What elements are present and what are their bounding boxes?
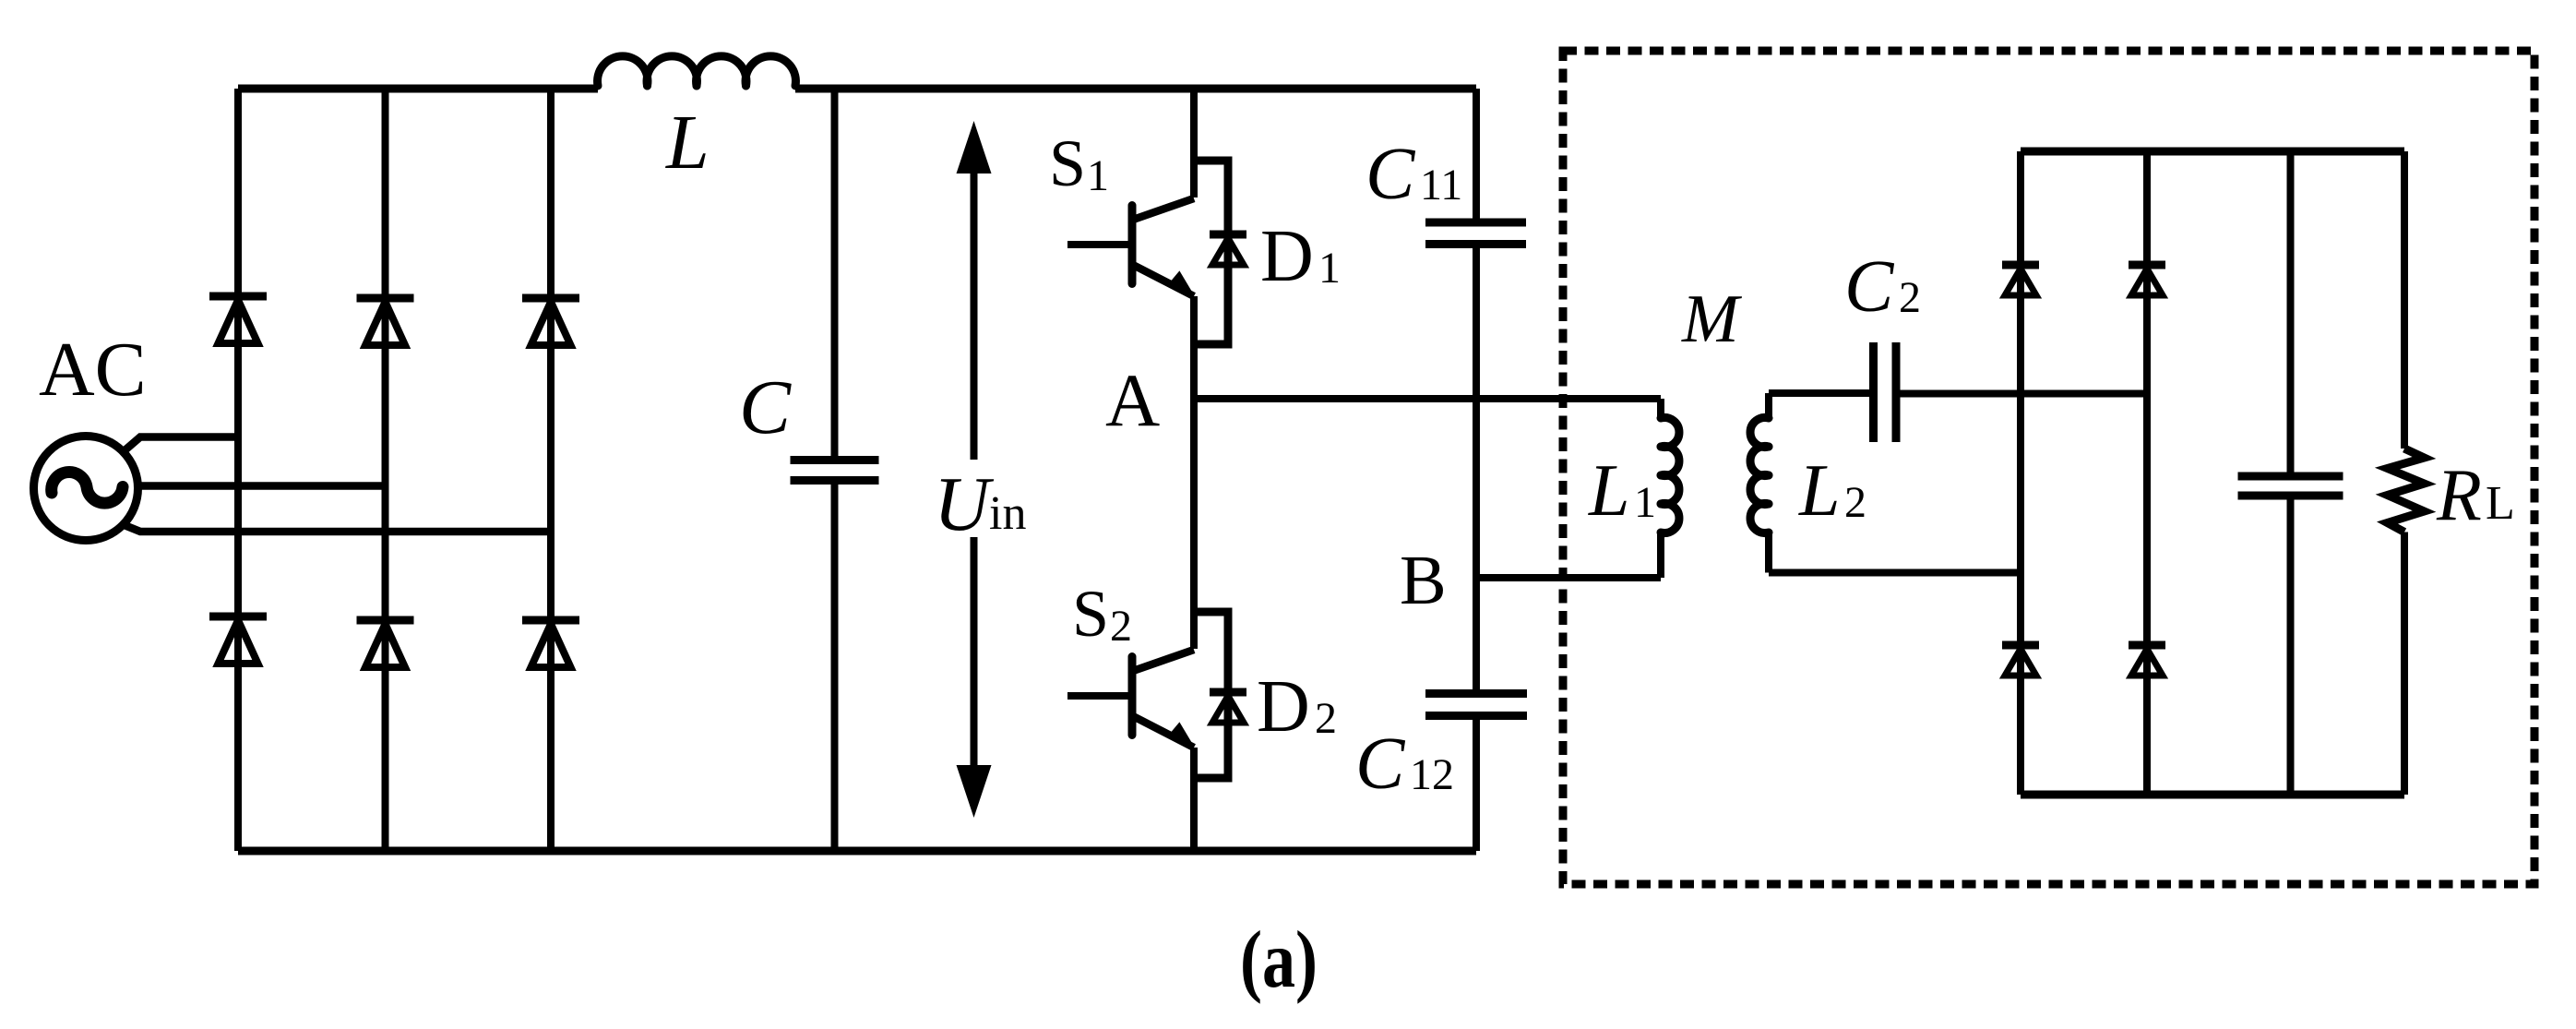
svg-text:11: 11 (1420, 161, 1462, 209)
svg-text:D: D (1260, 216, 1314, 297)
svg-text:U: U (934, 461, 995, 547)
svg-text:1: 1 (1087, 151, 1109, 200)
svg-text:L: L (2486, 477, 2515, 530)
svg-text:AC: AC (39, 327, 147, 413)
svg-text:2: 2 (1110, 602, 1132, 651)
svg-text:D: D (1257, 666, 1310, 748)
svg-text:R: R (2436, 455, 2482, 536)
svg-text:C: C (1844, 246, 1895, 328)
svg-text:2: 2 (1844, 478, 1866, 527)
svg-text:(a): (a) (1240, 915, 1318, 1005)
svg-text:1: 1 (1634, 478, 1656, 527)
svg-text:L: L (1588, 450, 1630, 532)
svg-text:in: in (989, 487, 1026, 540)
svg-text:2: 2 (1315, 694, 1337, 743)
svg-text:C: C (1355, 724, 1406, 805)
svg-text:A: A (1105, 358, 1160, 442)
svg-text:C: C (739, 365, 792, 450)
svg-text:B: B (1400, 542, 1447, 619)
svg-text:2: 2 (1899, 273, 1921, 322)
svg-text:M: M (1681, 281, 1743, 357)
svg-text:L: L (1798, 450, 1841, 532)
svg-text:S: S (1049, 126, 1086, 200)
svg-text:C: C (1366, 134, 1416, 215)
svg-text:1: 1 (1318, 244, 1341, 293)
svg-text:S: S (1072, 577, 1109, 651)
svg-text:12: 12 (1410, 750, 1454, 799)
svg-text:L: L (665, 100, 710, 185)
